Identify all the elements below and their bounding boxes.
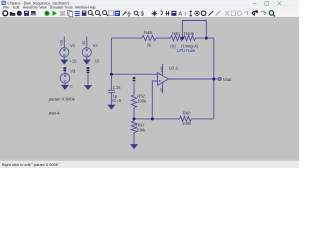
svg-text:.param X 600k: .param X 600k bbox=[48, 96, 76, 101]
status bar bbox=[0, 160, 299, 168]
svg-text:U2-C: U2-C bbox=[169, 65, 179, 70]
voltage source V2 bbox=[82, 37, 91, 61]
svg-text:0: 0 bbox=[70, 85, 72, 89]
svg-text:Edit: Edit bbox=[13, 6, 19, 10]
wire bridge over pot bbox=[182, 21, 206, 39]
svg-text:LFO Rate: LFO Rate bbox=[177, 48, 196, 53]
window title bar bbox=[0, 0, 299, 6]
svg-text:+15: +15 bbox=[60, 40, 64, 46]
resistor R4B bbox=[142, 36, 156, 41]
junction at pot right node bbox=[205, 37, 208, 40]
svg-text:Help: Help bbox=[88, 6, 95, 10]
junction at pot wiper node bbox=[181, 37, 184, 40]
wire left vertical bbox=[110, 38, 112, 90]
svg-text:View: View bbox=[39, 6, 47, 10]
wire inverting input bbox=[111, 73, 157, 75]
svg-text:IC=0: IC=0 bbox=[112, 98, 122, 103]
net flag post to ground bbox=[87, 74, 89, 86]
junction at divider node bbox=[133, 117, 136, 120]
svg-text:C15: C15 bbox=[113, 85, 121, 90]
svg-text:R40: R40 bbox=[172, 31, 180, 36]
wire top row right bbox=[195, 37, 214, 39]
svg-text:V2: V2 bbox=[93, 43, 99, 48]
svg-text:V3: V3 bbox=[70, 68, 76, 73]
ground under V1 bbox=[61, 60, 67, 64]
svg-text:.tran 4: .tran 4 bbox=[48, 110, 61, 115]
resistor R60 bbox=[180, 116, 191, 121]
svg-text:-15: -15 bbox=[160, 88, 164, 93]
wire opamp supply stubs bbox=[162, 64, 164, 93]
wire top row left bbox=[111, 37, 142, 39]
svg-text:+15: +15 bbox=[69, 59, 77, 64]
junction at output node bbox=[212, 78, 215, 81]
svg-text:-15: -15 bbox=[93, 59, 100, 64]
svg-text:100k: 100k bbox=[182, 121, 192, 126]
resistor R52 bbox=[131, 95, 136, 108]
svg-text:100k: 100k bbox=[136, 128, 146, 133]
svg-text:Hierarchy: Hierarchy bbox=[23, 6, 38, 10]
svg-text:V1: V1 bbox=[70, 43, 76, 48]
svg-text:100k: 100k bbox=[137, 98, 147, 103]
menu bar bbox=[0, 4, 299, 6]
flag at top of feedback chain bbox=[133, 77, 136, 81]
resistor R40b bbox=[184, 36, 196, 41]
svg-text:-15: -15 bbox=[82, 41, 86, 46]
menu items bbox=[3, 6, 95, 10]
junction at noninverting node bbox=[151, 117, 154, 120]
svg-text:R40b: R40b bbox=[184, 31, 195, 36]
svg-text:+15: +15 bbox=[160, 66, 164, 72]
ground under C15 bbox=[108, 105, 114, 109]
svg-text:R60: R60 bbox=[183, 110, 191, 115]
toolbar icons bbox=[3, 10, 275, 17]
svg-text:Vout: Vout bbox=[223, 77, 233, 82]
ground under flag post bbox=[85, 86, 91, 90]
junction at inverting input node bbox=[110, 73, 113, 76]
op-amp U2-C bbox=[158, 73, 169, 86]
svg-text:{X}: {X} bbox=[170, 43, 176, 48]
svg-text:Simulate: Simulate bbox=[50, 6, 64, 10]
svg-text:Tools: Tools bbox=[65, 6, 73, 10]
flag at top of V3 bbox=[63, 67, 66, 71]
wire noninverting stub bbox=[152, 81, 157, 119]
svg-text:Right click to edit ".param X: Right click to edit ".param X 600k" bbox=[2, 163, 60, 167]
ground under R50 bbox=[131, 145, 137, 149]
wire bottom row bbox=[134, 118, 214, 120]
window buttons bbox=[253, 2, 282, 6]
wire feedback chain bbox=[133, 83, 135, 145]
ground under V3 bbox=[62, 85, 68, 89]
wire output bbox=[169, 78, 223, 80]
svg-text:LTspice - [low_frequency_oscil: LTspice - [low_frequency_oscillator] bbox=[8, 0, 69, 5]
voltage source V3 bbox=[60, 68, 70, 86]
schematic background bbox=[0, 18, 299, 160]
app icon bbox=[2, 1, 6, 5]
wire cap to ground bbox=[110, 92, 112, 105]
net flag Vout bbox=[219, 77, 221, 80]
svg-text:R4B: R4B bbox=[144, 30, 152, 35]
capacitor C15 bbox=[108, 90, 115, 92]
svg-text:File: File bbox=[3, 6, 9, 10]
resistor R50 bbox=[131, 121, 136, 133]
voltage source V1 bbox=[60, 37, 69, 61]
wire top row mid bbox=[156, 37, 171, 39]
svg-text:A: A bbox=[178, 12, 182, 18]
svg-text:Window: Window bbox=[75, 6, 88, 10]
toolbar bbox=[0, 10, 299, 18]
resistor R40 bbox=[171, 36, 183, 41]
ground under V2 bbox=[84, 60, 90, 64]
wire right vertical bbox=[213, 38, 215, 119]
